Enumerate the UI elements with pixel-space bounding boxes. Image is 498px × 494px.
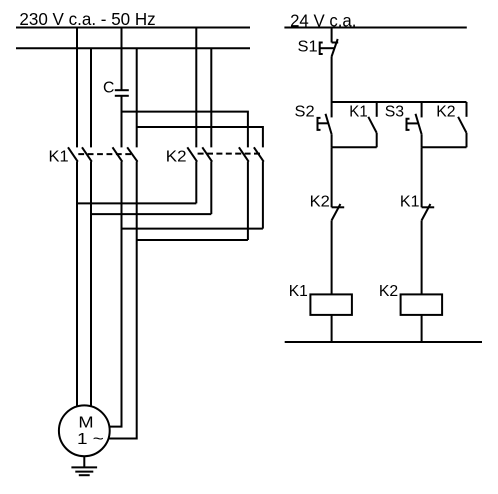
wire S2 to node B1 [331,134,333,147]
pushbutton S2 (NO) [326,114,332,134]
contactor K2 linkage [198,153,260,155]
wire T1 to K1 aux [376,102,378,117]
svg-text:K1: K1 [289,283,308,300]
wire S1 to node T1 [331,57,333,103]
wire node H2 K1p2-K2p2 [91,213,211,215]
wire K2 pole4 down [262,162,264,229]
contactor K2 pole3 [239,147,249,161]
contact K1 interlock (NC) [422,206,435,208]
svg-text:K2: K2 [166,149,187,166]
contactor K1 pole3 [113,147,123,161]
contactor K2 pole2 [202,147,212,161]
wire node cap to K2 pole3 [122,112,248,148]
contactor K1 pole4 [127,147,137,161]
wire node B2 [422,146,467,148]
wire L1 to K1 pole1 [76,28,78,148]
svg-text:K1: K1 [49,149,69,166]
wire L1 to K2 pole1 [195,28,197,148]
wire K1 aux to node B1 [376,133,378,147]
svg-text:S3: S3 [385,104,404,121]
contactor K2 pole4 [254,147,264,161]
svg-text:C: C [103,80,114,97]
wire node L2 to K2 pole4 [137,127,263,147]
pushbutton S1 (NC) [332,42,339,44]
wire coil K1 to bottom bus [331,315,333,342]
wire K1 pole2 to motor [90,162,92,407]
bus L2 (230V neutral) [16,47,250,49]
bus L1 (230V phase) [16,27,250,29]
svg-text:K2: K2 [436,104,455,121]
contactor K1 linkage [78,153,132,155]
wire T1 to S3 [421,102,423,117]
wire L2 to K2 pole2 [210,48,212,147]
svg-text:1 ~: 1 ~ [77,431,104,448]
bus 24V top [284,27,466,29]
wire motor to ground [83,456,85,467]
svg-text:S2: S2 [295,104,315,121]
contact K2 interlock (NC) [332,206,345,208]
wire node H1 K1p1-K2p1 [77,202,196,204]
wire node T1 [332,101,467,103]
wire B1 to K2 NC [331,147,333,207]
wire K2 pole1 down [195,162,197,204]
contactor K1 pole2 [82,147,92,161]
wire L2 to K1 pole2 [90,48,92,147]
wire node B1 [332,146,377,148]
pushbutton S3 (NO) [416,114,422,134]
coil K2 [401,294,443,315]
wire 24V bus to S1 [331,28,333,43]
wire K1 NC to coil K2 [421,220,423,294]
bus control bottom [285,341,482,343]
wire K2 NC to coil K1 [331,220,333,294]
capacitor C1 [115,89,129,91]
wire coil K2 to bottom bus [421,315,423,342]
contact K2 aux (NO) [458,117,466,133]
wire K1 pole4 to motor aux2 [109,162,137,439]
wire T1 to K2 aux [466,102,468,117]
svg-text:S1: S1 [298,39,318,56]
wire K2 pole2 down [210,162,212,215]
wire K2 aux to node B2 [466,133,468,147]
svg-text:230 V c.a. - 50 Hz: 230 V c.a. - 50 Hz [19,9,155,29]
coil K1 [310,294,352,315]
wire capacitor to K1 pole3 [121,96,123,148]
wire K1 pole3 to motor aux1 [110,162,122,427]
wire L2 to K1 pole4 [136,48,138,147]
svg-text:K1: K1 [400,194,420,211]
contact K1 aux (NO) [368,117,376,133]
contactor K2 pole1 [187,147,197,161]
wire K1 pole1 to motor [76,162,78,407]
wire T1 to S2 [331,102,333,117]
contactor K1 pole1 [68,147,78,161]
ground [71,466,97,468]
svg-text:K1: K1 [349,104,367,121]
wire node H4 K1p4-K2p3 [137,239,248,241]
wire node H3 K1p3-K2p4 [122,228,263,230]
svg-text:M: M [78,415,93,432]
wire L1 to capacitor [121,28,123,91]
wire B2 to K1 NC [421,147,423,207]
svg-text:K2: K2 [310,194,330,211]
wire K2 pole3 down [247,162,249,241]
motor M1 [59,405,110,456]
wire S3 to node B2 [421,134,423,147]
svg-text:K2: K2 [379,283,398,300]
